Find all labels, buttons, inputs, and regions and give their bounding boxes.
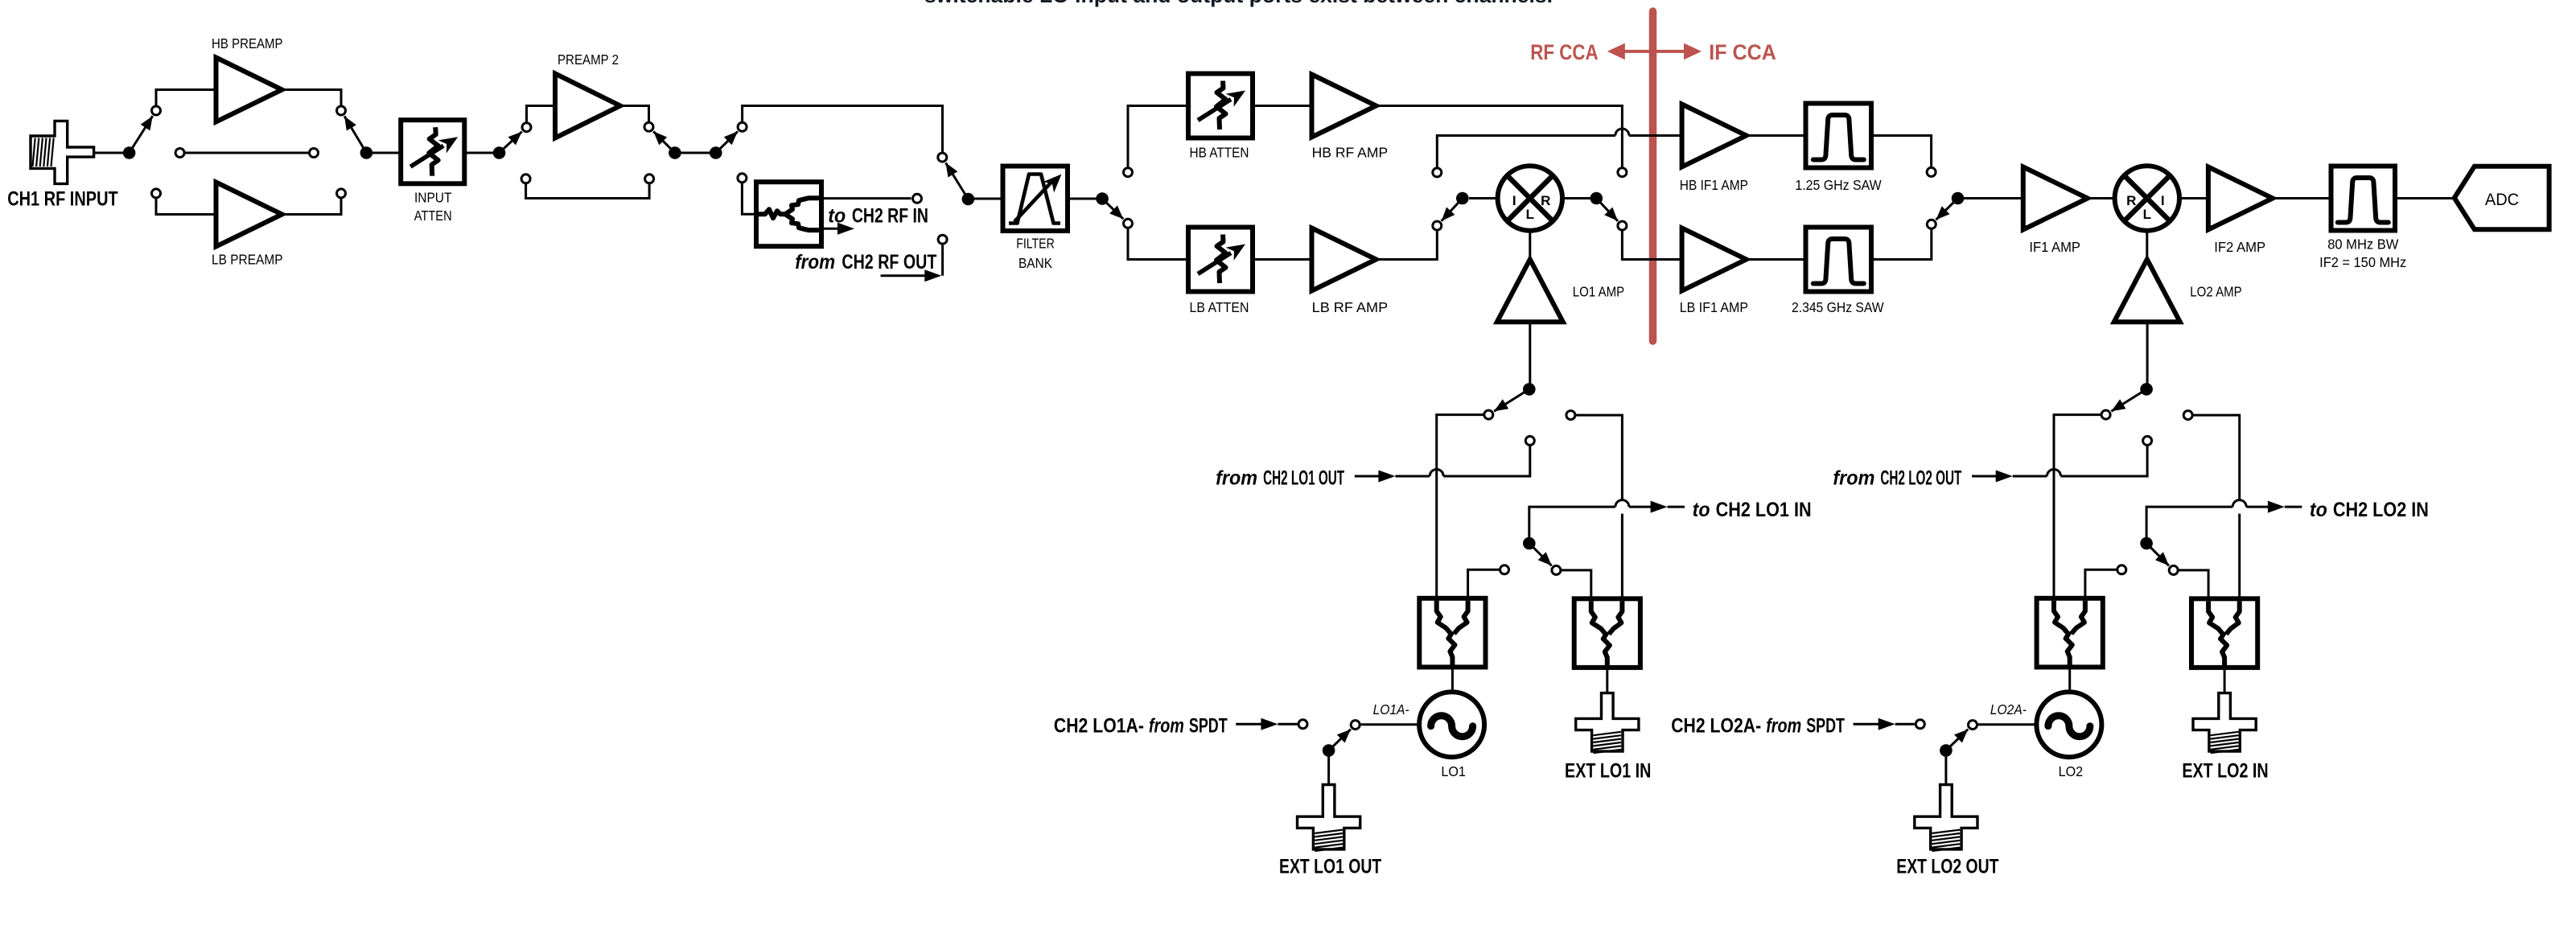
svg-text:BANK: BANK: [1018, 255, 1052, 271]
svg-text:LB PREAMP: LB PREAMP: [212, 252, 283, 268]
switch SW8 throw LB-out: [1618, 221, 1627, 230]
switch LO2 throw ext: [2183, 411, 2192, 420]
switch LO2 sel lever: [2111, 389, 2146, 411]
switch SW8 throw HB-thru: [1618, 168, 1627, 177]
switch SW4 throw amp: [644, 122, 653, 131]
junction dot LO1A: [1323, 744, 1335, 757]
wire: [1606, 668, 1608, 693]
wire: [2193, 415, 2240, 500]
svg-text:CH1 RF INPUT: CH1 RF INPUT: [7, 188, 118, 211]
wire: [464, 152, 499, 154]
switch LO1 share throw ext: [1552, 565, 1561, 574]
switch LO1A throw osc: [1351, 721, 1360, 730]
switch SW9 lever: [1442, 199, 1463, 221]
switch LO2A throw spdt: [1916, 720, 1924, 729]
wire arrow CH2 LO1A: [1236, 723, 1263, 726]
switch LO1 sel lever: [1494, 389, 1529, 411]
switch SW3 throw amp: [522, 123, 531, 132]
wire: [2068, 667, 2071, 692]
wire: [1958, 197, 2023, 199]
svg-text:CH2 LO2 IN: CH2 LO2 IN: [2333, 499, 2429, 521]
wire LO2 amp to switch: [2146, 322, 2149, 389]
svg-text:to: to: [1693, 499, 1710, 521]
wire: [1562, 197, 1596, 199]
wire: [2088, 197, 2115, 199]
wire: [527, 106, 556, 122]
red divider bar RF/IF CCA: [1649, 11, 1657, 341]
junction dot: [1096, 192, 1109, 205]
wire: [1871, 229, 1932, 259]
switch SW1 throw bypass: [175, 149, 184, 158]
filter 2.345 GHz SAW: [1806, 228, 1872, 292]
wire: [156, 199, 216, 215]
junction dot: [493, 146, 506, 159]
amplifier PREAMP 2: [555, 74, 620, 138]
svg-text:LB ATTEN: LB ATTEN: [1190, 299, 1249, 315]
switch SW1 lever: [130, 116, 153, 153]
svg-text:from: from: [1216, 467, 1257, 490]
svg-text:CH2 LO1A-: CH2 LO1A-: [1054, 714, 1144, 737]
switch SW7 throw LB: [1124, 219, 1133, 228]
junction dot: [710, 146, 722, 159]
oscillator LO1: [1419, 692, 1484, 757]
wire: [1576, 415, 1623, 500]
wire to CH2 LO2 IN: [2146, 507, 2232, 537]
junction dot: [1952, 192, 1965, 205]
switch SW7 lever: [1102, 199, 1123, 219]
wire top route: [743, 106, 943, 153]
wire: [2179, 570, 2208, 598]
wire to CH2 LO1 IN: [1529, 507, 1615, 537]
svg-text:ADC: ADC: [2485, 191, 2519, 209]
svg-text:SPDT: SPDT: [1806, 714, 1845, 737]
amplifier IF1 AMP: [2023, 167, 2088, 230]
svg-text:CH2 LO1 IN: CH2 LO1 IN: [1716, 499, 1812, 521]
svg-text:LO2 AMP: LO2 AMP: [2190, 284, 2241, 300]
switch LO1 throw ext: [1566, 411, 1575, 420]
wire: [968, 198, 1002, 200]
svg-text:LB IF1 AMP: LB IF1 AMP: [1680, 299, 1748, 315]
mixer M1 first conversion: [1498, 166, 1562, 230]
svg-text:EXT LO2 OUT: EXT LO2 OUT: [1896, 855, 1998, 878]
switch SW1 throw HB: [152, 106, 161, 115]
junction dot: [669, 146, 681, 159]
switch SW3 throw bypass: [521, 175, 530, 183]
block ADC: [2455, 166, 2549, 230]
svg-text:from: from: [1766, 714, 1801, 737]
wire: [620, 106, 649, 122]
svg-text:LO2: LO2: [2059, 763, 2084, 779]
switch SW7 throw HB: [1124, 168, 1133, 177]
svg-text:L: L: [2143, 207, 2151, 222]
wire: [2273, 197, 2331, 199]
svg-text:LO1A-: LO1A-: [1373, 701, 1409, 717]
svg-text:LB RF AMP: LB RF AMP: [1312, 299, 1389, 315]
svg-text:ATTEN: ATTEN: [414, 208, 452, 224]
wire: [1437, 415, 1483, 598]
attenuator LB ATTEN: [1188, 228, 1253, 292]
wire: [366, 152, 401, 154]
junction dot LO2 sel: [2140, 383, 2153, 396]
svg-text:HB ATTEN: HB ATTEN: [1190, 145, 1249, 161]
switch LO1A lever: [1329, 730, 1351, 750]
amplifier LO1 AMP: [1497, 259, 1563, 322]
wire arrow from CH2 RF OUT: [881, 274, 927, 277]
wire from CH2 LO2 OUT: [1972, 475, 1996, 478]
wire: [1468, 569, 1500, 598]
wire: [1361, 723, 1419, 726]
switch SW2 lever: [344, 116, 366, 153]
wire: [742, 183, 756, 214]
terminal from CH2 RF OUT: [938, 235, 947, 244]
wire: [1871, 136, 1932, 167]
svg-text:HB PREAMP: HB PREAMP: [212, 35, 283, 51]
junction dot: [962, 193, 975, 206]
svg-text:CH2 LO2 OUT: CH2 LO2 OUT: [1880, 467, 1961, 490]
junction dot LO1 share: [1523, 537, 1536, 550]
wire: [1747, 258, 1806, 261]
wire: [1621, 514, 1623, 598]
junction dot: [360, 146, 373, 159]
wire arrow CH2 LO2A: [1854, 723, 1881, 726]
wire bypass 2: [526, 184, 650, 199]
switch SW5 throw main: [738, 122, 747, 131]
wire HB IF1 feed with hop: [1437, 136, 1615, 167]
wire: [94, 152, 130, 154]
switch LO2 share throw int: [2117, 565, 2126, 574]
switch LO2 share throw ext: [2169, 565, 2178, 574]
switch SW5 lever: [716, 131, 738, 153]
switch LO1 throw from-CH2: [1525, 436, 1534, 445]
svg-text:R: R: [2126, 193, 2136, 208]
wire mixer1 LO port: [1529, 231, 1531, 260]
amplifier LB RF AMP: [1312, 228, 1376, 291]
svg-text:80 MHz BW: 80 MHz BW: [2327, 236, 2399, 253]
svg-text:to: to: [2310, 499, 2327, 521]
wire: [2085, 569, 2117, 598]
switch SW4 lever: [653, 131, 675, 153]
svg-text:PREAMP 2: PREAMP 2: [558, 51, 619, 68]
svg-text:RF CCA: RF CCA: [1530, 40, 1598, 64]
wire: [282, 199, 342, 215]
wire: [2054, 415, 2101, 598]
switch SW10 lever: [1936, 199, 1958, 220]
wire: [1944, 757, 1947, 785]
svg-text:CH2 LO2A-: CH2 LO2A-: [1671, 714, 1761, 737]
switch SW1 throw LB: [152, 189, 161, 198]
junction dot LO2 share: [2140, 537, 2153, 550]
wire: [1327, 757, 1330, 785]
filter 80 MHz BW: [2331, 166, 2396, 231]
svg-text:from: from: [795, 251, 835, 273]
svg-text:HB RF AMP: HB RF AMP: [1312, 145, 1389, 161]
svg-text:EXT LO1 OUT: EXT LO1 OUT: [1279, 855, 1381, 878]
wire: [2238, 514, 2241, 598]
amplifier HB RF AMP: [1312, 75, 1376, 138]
wire from CH2 LO1 OUT: [1355, 475, 1379, 478]
svg-text:IF2 = 150 MHz: IF2 = 150 MHz: [2319, 254, 2406, 270]
svg-text:EXT LO1 IN: EXT LO1 IN: [1565, 759, 1651, 782]
svg-text:CH2 RF IN: CH2 RF IN: [852, 205, 928, 228]
amplifier LB PREAMP: [216, 183, 282, 247]
svg-text:from: from: [1833, 467, 1874, 490]
switch LO1 share lever: [1529, 544, 1552, 566]
switch LO1 share throw int: [1500, 565, 1509, 574]
switch LO1A throw spdt: [1298, 720, 1307, 729]
switch LO2A throw osc: [1969, 721, 1977, 730]
filter FILTER BANK: [1003, 166, 1068, 232]
connector EXT LO1 IN: [1576, 693, 1639, 754]
junction dot LO1 sel: [1523, 383, 1536, 396]
svg-text:2.345 GHz SAW: 2.345 GHz SAW: [1792, 299, 1884, 315]
power splitter LO1 internal: [1419, 598, 1485, 668]
svg-text:switchable LO input and output: switchable LO input and output ports exi…: [924, 0, 1553, 7]
red boundary arrow: [1607, 43, 1702, 60]
switch SW4 throw bypass: [645, 175, 654, 183]
terminal to CH2 RF IN: [913, 194, 922, 203]
mixer M2 second conversion: [2115, 166, 2179, 230]
wire LB IF1 feed: [1622, 231, 1681, 259]
wire: [282, 90, 342, 106]
svg-text:LO1: LO1: [1441, 763, 1466, 779]
amplifier HB PREAMP: [216, 58, 282, 122]
amplifier LB IF1 AMP: [1682, 228, 1747, 291]
wire mixer2 LO port: [2146, 231, 2148, 260]
svg-text:EXT LO2 IN: EXT LO2 IN: [2182, 759, 2268, 782]
wire: [2224, 668, 2226, 693]
switch SW10 throw LB: [1927, 220, 1936, 228]
connector EXT LO1 OUT: [1298, 785, 1360, 852]
switch SW2 throw LB: [337, 189, 346, 198]
connector J1 CH1 RF INPUT: [31, 121, 94, 183]
wire: [1253, 258, 1312, 261]
svg-text:LO1 AMP: LO1 AMP: [1573, 284, 1624, 300]
wire LB branch: [1128, 228, 1188, 259]
switch SW6 throw main: [938, 153, 947, 162]
wire: [1469, 197, 1498, 199]
svg-text:from: from: [1149, 714, 1184, 737]
svg-text:CH2 LO1 OUT: CH2 LO1 OUT: [1263, 467, 1344, 490]
wire: [2179, 197, 2208, 199]
svg-text:I: I: [1512, 193, 1516, 208]
power splitter EXT LO1 IN: [1574, 598, 1640, 668]
svg-text:I: I: [2161, 193, 2165, 208]
svg-text:R: R: [1541, 193, 1550, 208]
filter 1.25 GHz SAW: [1806, 104, 1872, 168]
wire HB branch: [1128, 106, 1188, 167]
switch SW9 throw LB-in: [1433, 221, 1442, 230]
switch LO2 throw from-CH2: [2143, 436, 2152, 445]
wire LB to switch: [1376, 231, 1438, 259]
junction dot mixer1 I: [1456, 192, 1469, 205]
switch LO2A lever: [1946, 730, 1968, 750]
amplifier LO2 AMP: [2114, 259, 2180, 322]
junction dot: [123, 146, 136, 159]
svg-text:CH2 RF OUT: CH2 RF OUT: [842, 251, 936, 273]
svg-text:L: L: [1526, 207, 1534, 222]
switch SW2 throw bypass: [310, 149, 319, 158]
amplifier HB IF1 AMP: [1682, 105, 1747, 167]
wire: [1253, 105, 1312, 107]
wire: [821, 197, 911, 199]
connector EXT LO2 OUT: [1915, 785, 1977, 852]
switch SW8 lever: [1596, 199, 1618, 221]
wire: [2395, 197, 2455, 199]
wire: [1451, 667, 1454, 692]
wire: [1978, 723, 2036, 726]
power splitter EXT LO2 IN: [2191, 598, 2257, 668]
wire: [1068, 198, 1102, 200]
connector EXT LO2 IN: [2193, 693, 2256, 754]
svg-text:LO2A-: LO2A-: [1990, 701, 2027, 717]
switch LO2 throw internal: [2101, 410, 2110, 419]
switch LO1 throw internal: [1484, 410, 1493, 419]
amplifier IF2 AMP: [2208, 167, 2273, 230]
switch SW9 throw HB-in: [1433, 168, 1442, 177]
svg-text:IF1 AMP: IF1 AMP: [2029, 239, 2080, 255]
wire: [1747, 134, 1806, 137]
wire bypass: [185, 152, 309, 154]
svg-text:IF2 AMP: IF2 AMP: [2214, 239, 2265, 255]
svg-text:INPUT: INPUT: [414, 190, 452, 206]
attenuator INPUT ATTEN: [401, 120, 464, 183]
wire: [675, 152, 716, 154]
switch SW3 lever: [500, 132, 522, 153]
switch SW2 throw HB: [337, 106, 346, 115]
switch SW6 lever: [946, 162, 969, 199]
svg-text:IF CCA: IF CCA: [1709, 40, 1776, 64]
svg-text:FILTER: FILTER: [1016, 236, 1055, 252]
wire: [1562, 570, 1591, 598]
attenuator HB ATTEN: [1188, 74, 1253, 138]
power splitter LO2 internal: [2037, 598, 2103, 668]
power splitter CH2 RF tap: [756, 182, 821, 246]
svg-text:to: to: [828, 205, 846, 228]
svg-text:SPDT: SPDT: [1189, 714, 1228, 737]
wire: [156, 90, 216, 106]
junction dot mixer1 R: [1590, 192, 1603, 205]
switch SW5 throw splitter: [738, 174, 747, 183]
svg-text:HB IF1 AMP: HB IF1 AMP: [1680, 177, 1748, 193]
wire HB to switch: [1376, 106, 1623, 167]
oscillator LO2: [2036, 692, 2101, 757]
switch SW10 throw HB: [1927, 167, 1936, 176]
switch LO2 share lever: [2146, 544, 2169, 566]
junction dot LO2A: [1940, 744, 1953, 757]
wire arrow to CH2 RF IN: [821, 228, 840, 230]
wire LO1 amp to switch: [1529, 322, 1531, 389]
svg-text:1.25 GHz SAW: 1.25 GHz SAW: [1795, 177, 1882, 193]
